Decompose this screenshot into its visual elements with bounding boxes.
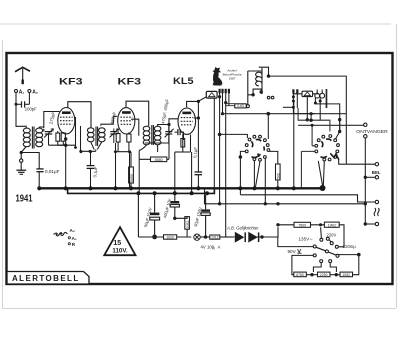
V2 screen wire xyxy=(131,119,139,136)
node bell junctions xyxy=(292,95,342,121)
svg-text:502: 502 xyxy=(277,173,281,179)
wire feed to S1 xyxy=(220,134,248,138)
V2 grids (dashed) xyxy=(120,117,132,124)
label A1 xyxy=(68,237,70,239)
node chain a xyxy=(310,273,313,276)
mains triangle 15/110V xyxy=(104,227,135,255)
label R xyxy=(68,243,70,245)
selector contact A xyxy=(313,245,316,248)
svg-text:15: 15 xyxy=(113,240,121,247)
terminal AC upper xyxy=(375,200,378,203)
wire rail y113.7 xyxy=(223,113,347,115)
svg-text:A₂: A₂ xyxy=(32,89,38,95)
wire U1 to mid verticals xyxy=(213,98,215,193)
HT rail (second) xyxy=(68,188,215,193)
wire to rectifier xyxy=(220,236,235,238)
V2 bias resistor xyxy=(127,134,131,142)
terminal circle after resistor xyxy=(246,105,249,108)
loudspeaker/buzzer U1 box xyxy=(206,91,217,98)
pentode V2 KF3 envelope xyxy=(118,108,135,134)
bell striker bar xyxy=(326,89,328,108)
svg-text:0,4Ω: 0,4Ω xyxy=(237,104,244,108)
output pentode V3 KL5 envelope xyxy=(178,108,196,134)
node coil taps xyxy=(251,93,254,96)
wire supply vertical 1 xyxy=(219,92,221,204)
svg-text:450pF: 450pF xyxy=(109,111,117,125)
V3 cathode resistor xyxy=(181,139,185,148)
AC squiggle symbol xyxy=(374,208,379,216)
V2 cathode resistor xyxy=(116,134,120,143)
V2 cathode wires xyxy=(114,132,131,189)
wires bell area xyxy=(293,93,339,189)
wire supply vertical 2 xyxy=(222,92,224,114)
svg-text:110V.: 110V. xyxy=(112,248,128,255)
wire supply vertical 4 xyxy=(228,92,230,106)
wire supply vertical 3 xyxy=(225,92,227,237)
svg-text:1020: 1020 xyxy=(166,235,174,239)
V1 cathode resistor R-k1 xyxy=(56,133,60,141)
wire chain a xyxy=(306,274,317,276)
resistor 2250 xyxy=(318,272,331,277)
rotary switch S1 contacts xyxy=(245,135,269,161)
svg-text:100pF: 100pF xyxy=(25,107,37,112)
electrolytic capacitor 400uF 10V xyxy=(170,195,179,220)
svg-text:A: A xyxy=(218,245,221,250)
node V2 cathode junctions xyxy=(114,150,117,153)
svg-text:1987: 1987 xyxy=(229,77,236,81)
svg-text:6750: 6750 xyxy=(296,273,304,277)
supply line lower xyxy=(205,188,366,204)
wire bias resistor leads xyxy=(175,217,187,237)
svg-text:KF3: KF3 xyxy=(59,76,83,87)
wire S2 striker feed xyxy=(336,120,340,139)
wire T1 secondary top to tube V1 grid xyxy=(39,112,59,129)
resistor 7500 xyxy=(294,222,311,227)
svg-text:5650: 5650 xyxy=(155,158,163,162)
wire AVC resistor leads xyxy=(139,126,169,159)
wire coil to right column xyxy=(269,76,347,164)
trimmer capacitor (T3) xyxy=(145,126,174,143)
antenna coupling cap 100pF xyxy=(16,93,29,108)
V3 grids (dashed) xyxy=(181,118,193,125)
V3 top cap wire to output xyxy=(187,101,199,107)
svg-text:1WΩ: 1WΩ xyxy=(328,223,336,227)
svg-text:90V: 90V xyxy=(288,249,297,254)
svg-text:A₁: A₁ xyxy=(19,89,25,95)
V3 screen wire xyxy=(194,117,199,119)
svg-text:BEL: BEL xyxy=(372,170,381,175)
node rail junctions xyxy=(267,112,271,116)
wire AC lower link xyxy=(365,223,375,225)
node HT rail junctions xyxy=(136,191,209,195)
antenna transformer T1 xyxy=(23,127,42,149)
wire chain b xyxy=(330,274,340,276)
mains return line xyxy=(240,195,375,202)
S2 wiper arms xyxy=(321,139,339,160)
V2 anode xyxy=(122,111,131,114)
node T3 grid junction xyxy=(167,123,170,126)
svg-text:475pF. 450pF: 475pF. 450pF xyxy=(160,98,169,124)
svg-text:A₂: A₂ xyxy=(70,228,75,233)
resistor (bias divider, vertical) xyxy=(185,217,190,230)
terminal BEL lower xyxy=(375,176,378,179)
node S1 tap xyxy=(239,155,243,159)
node nest junctions xyxy=(309,119,312,122)
wire S1 left tap xyxy=(240,151,245,157)
pickup scribble coil xyxy=(54,232,68,235)
svg-text:400µF 10V: 400µF 10V xyxy=(162,198,172,219)
capacitor fixed (T3) xyxy=(175,129,184,140)
wire S2 wiper to BEL xyxy=(339,159,376,164)
IF transformer T3 xyxy=(143,125,161,145)
wiper 220 xyxy=(329,240,331,242)
node dropper junction xyxy=(319,223,322,226)
S1 wiper arms xyxy=(251,139,264,157)
wire T1 primary bottom to junction xyxy=(21,147,26,153)
svg-text:0,1µF: 0,1µF xyxy=(92,166,98,178)
lamp 4V 100mA xyxy=(194,234,200,240)
contact 220mu xyxy=(335,245,338,248)
svg-text:ALERTOBELL: ALERTOBELL xyxy=(12,274,80,283)
electrolytic capacitor 50uF 150V (second) xyxy=(201,195,210,239)
wire 90V feed xyxy=(278,237,313,247)
trimmer capacitor 450pF (T2) xyxy=(110,129,119,144)
V2 top cap wire to T3 primary xyxy=(126,101,149,126)
selector contact row2 b xyxy=(329,260,332,263)
node striker xyxy=(338,130,341,133)
V1 grids (dashed) xyxy=(60,117,73,124)
terminal AC lower xyxy=(375,222,378,225)
wire resistor 502 to bus xyxy=(277,180,279,188)
svg-text:ONTVANGER: ONTVANGER xyxy=(356,129,388,134)
V3 cathode wires xyxy=(175,134,192,193)
V1 cathode wires xyxy=(58,117,81,188)
bell coil L3 xyxy=(315,90,325,99)
svg-text:A₁: A₁ xyxy=(72,236,77,241)
resistor 1020 (heater series) xyxy=(164,235,177,239)
node BEL link xyxy=(364,176,367,179)
wiper A-B xyxy=(316,247,326,251)
svg-text:7500: 7500 xyxy=(298,223,306,227)
node AC link xyxy=(364,222,367,225)
wire T3 secondary to V3 grid xyxy=(158,119,179,127)
svg-text:m: m xyxy=(213,247,216,251)
logo silhouette + stamp text xyxy=(213,68,242,86)
node bus junctions xyxy=(37,185,325,191)
wire S1 bottom to bus xyxy=(253,161,255,189)
wire S1 right to resistor 502 xyxy=(268,151,277,164)
svg-text:0,1µF: 0,1µF xyxy=(192,146,198,158)
wire HT to heater line xyxy=(137,193,139,237)
resistor 1012 (heater series 2) xyxy=(210,235,220,239)
resistor 502 (vertical) xyxy=(276,164,281,180)
wire BEL lower link xyxy=(365,176,375,178)
contact 220V xyxy=(326,237,329,240)
svg-text:5050: 5050 xyxy=(130,174,134,182)
terminal blobs bell left xyxy=(292,89,294,93)
wire T2 secondary to V2 grid xyxy=(101,116,117,125)
node grid-return xyxy=(64,144,67,147)
wire rectifier output xyxy=(257,227,278,237)
node supply line junctions xyxy=(218,202,367,226)
wiper B-C xyxy=(328,252,336,255)
electrolytic capacitor 50uF 150V (first) xyxy=(150,195,160,239)
svg-text:275pF: 275pF xyxy=(48,111,56,125)
wire 1000 lead right xyxy=(339,225,344,245)
heater line xyxy=(138,236,191,238)
triode V1 KF3 envelope xyxy=(58,108,75,134)
svg-text:KF3: KF3 xyxy=(118,76,142,87)
V1 top cap wire to T2 primary xyxy=(68,102,91,128)
node anode feed xyxy=(197,100,200,103)
node cathode junctions xyxy=(74,146,77,149)
V1 bias resistor xyxy=(61,133,65,141)
trimmer capacitor 275pF xyxy=(44,129,54,146)
node T2 bottom xyxy=(79,150,82,153)
bell relay U2 box xyxy=(302,91,313,96)
contact 220V b xyxy=(330,242,333,245)
ground xyxy=(16,170,26,174)
svg-text:R: R xyxy=(72,242,76,247)
resistor 1052 xyxy=(340,272,353,277)
wire terminal to ground xyxy=(20,154,22,170)
svg-text:50µF 150V: 50µF 150V xyxy=(193,206,203,227)
selector contact C xyxy=(336,254,339,257)
wire 7500 leads xyxy=(278,224,324,226)
title box ALERTOBELL xyxy=(7,272,89,285)
wire nest to switch2 xyxy=(298,108,364,188)
node rectifier line xyxy=(260,235,263,238)
node chain b xyxy=(335,273,338,276)
svg-text:135V∼: 135V∼ xyxy=(299,237,314,242)
resistor 5050 (screen dropper, vertical) xyxy=(129,167,134,183)
terminals A1 A2 xyxy=(15,89,39,95)
svg-text:1941: 1941 xyxy=(16,193,33,204)
contact 135V xyxy=(320,238,323,241)
wire coil tap to bell box xyxy=(283,106,293,108)
wire S1 tap down xyxy=(239,157,241,195)
capacitor 0.1uF (detector) xyxy=(87,151,95,187)
selector contact B xyxy=(325,250,328,253)
wire resistor chain left riser xyxy=(292,255,313,274)
wire trimmer to cathode line xyxy=(49,144,66,146)
svg-text:KL5: KL5 xyxy=(173,76,194,87)
wire rail to S1 top xyxy=(267,114,269,139)
svg-text:2250: 2250 xyxy=(320,273,328,277)
wire S2 bottom to bus end xyxy=(318,161,324,187)
wire 5050 leads xyxy=(130,158,132,188)
wire ONTVANGER down xyxy=(364,138,366,224)
T3 bottom wires xyxy=(139,145,157,152)
wire S1 bottom 2 xyxy=(255,161,260,187)
terminal circles coil bottom xyxy=(267,96,270,99)
svg-text:1012: 1012 xyxy=(211,236,219,240)
rotary switch S2 contacts xyxy=(315,135,340,161)
svg-text:0,01µF: 0,01µF xyxy=(45,169,60,174)
resistor 6750 xyxy=(294,272,307,277)
svg-text:1052: 1052 xyxy=(186,221,190,229)
terminal BEL upper xyxy=(375,163,378,166)
terminal ONTVANGER upper xyxy=(364,123,367,126)
resistor 0.4ohm xyxy=(235,104,246,108)
node junction T1 bottom xyxy=(20,151,23,154)
V1 anode xyxy=(62,111,71,114)
oscillator coil L2 xyxy=(248,67,269,104)
IF transformer T2 xyxy=(87,127,105,147)
earth bus (main) xyxy=(39,187,323,189)
svg-text:A.B. Gelijkrichter: A.B. Gelijkrichter xyxy=(226,225,259,230)
wire anode-feed vertical to decoupling cap xyxy=(197,101,199,172)
wire chain right riser xyxy=(337,255,359,275)
capacitor 0.01uF xyxy=(36,169,43,188)
svg-text:220mμ: 220mμ xyxy=(343,244,356,249)
V3 anode xyxy=(182,112,191,115)
svg-text:1052: 1052 xyxy=(342,273,350,277)
wire rail y102.6 xyxy=(226,104,235,106)
node mid junctions xyxy=(218,95,227,136)
wire A1 down to coil T1 xyxy=(16,104,26,128)
resistor 1000 xyxy=(324,222,339,227)
node screen junction xyxy=(197,116,200,119)
wire junction to cap 0.01uF xyxy=(21,153,39,169)
terminal ONTVANGER lower xyxy=(364,135,367,138)
wire lamp to resistor xyxy=(200,236,210,238)
capacitor 0.1uF decoupling xyxy=(195,172,203,188)
selector contact D xyxy=(313,254,316,257)
resistor 5650 (AVC) xyxy=(151,157,167,162)
wire S1 bottom2 down xyxy=(264,158,266,204)
selector contacts row2 xyxy=(320,260,323,263)
T2 coil bottom wires xyxy=(81,142,102,152)
wire 135V contact xyxy=(320,227,323,238)
antenna symbol xyxy=(15,67,30,84)
wire U1 left lead xyxy=(198,97,206,101)
node chain top xyxy=(357,253,361,257)
terminal circle to ground xyxy=(20,159,23,162)
wire selector row2 drops xyxy=(313,263,336,272)
